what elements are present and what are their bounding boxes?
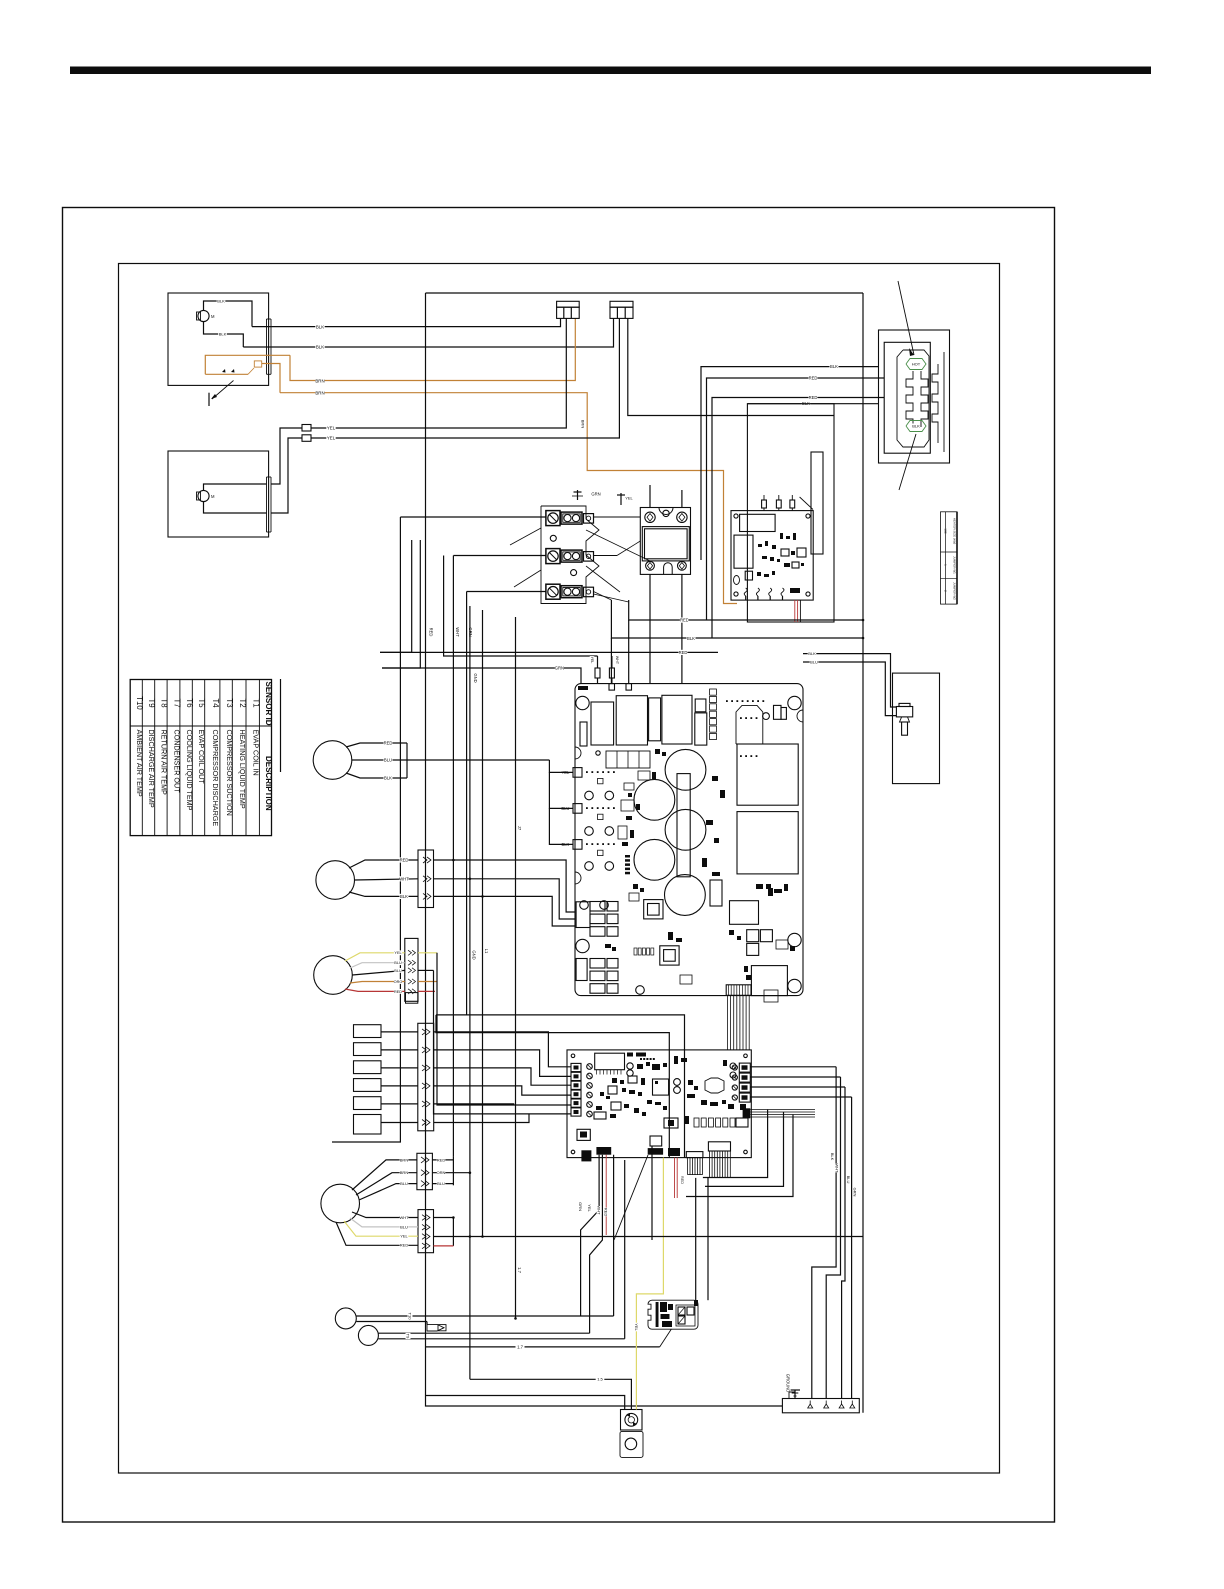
control board left terminal strip bbox=[571, 1063, 581, 1116]
label BLK plug wire 4 bbox=[801, 401, 810, 406]
display board component block A bbox=[740, 514, 776, 531]
wire M1 top loop bbox=[204, 301, 253, 327]
svg-text:T5: T5 bbox=[197, 698, 206, 708]
svg-text:WHT: WHT bbox=[597, 1205, 602, 1215]
label 1.7 V8 lower bbox=[517, 1265, 522, 1274]
label RED plug wire 2 bbox=[808, 375, 817, 380]
control board bottom wires bbox=[581, 1146, 652, 1339]
svg-text:WHT: WHT bbox=[399, 876, 409, 881]
power board mount holes bbox=[576, 696, 801, 992]
heater relay block bbox=[648, 1300, 698, 1329]
ground lug symbol 2 bbox=[617, 493, 634, 505]
svg-text:ORN: ORN bbox=[437, 1170, 446, 1175]
wire S3 GRY bbox=[350, 960, 405, 968]
jumper chart table bbox=[941, 512, 958, 604]
compressor plug socket bbox=[621, 1410, 643, 1431]
wire BLK to plug (line 1) bbox=[701, 367, 879, 560]
plate hole 2 bbox=[571, 570, 577, 576]
control board red pair down bbox=[606, 1155, 684, 1235]
power board lower-left fuse bank A bbox=[576, 902, 618, 937]
control board bottom comb A bbox=[688, 1158, 703, 1175]
fan motor M1 bbox=[197, 310, 216, 321]
TB jumpers to SSR bbox=[510, 517, 650, 602]
svg-text:BLK: BLK bbox=[316, 345, 324, 350]
label BRN wire 2 bbox=[315, 390, 324, 395]
svg-text:RED: RED bbox=[680, 618, 689, 623]
wire TB3 feed bbox=[467, 591, 546, 593]
svg-text:GRN: GRN bbox=[578, 1202, 583, 1211]
power board filter capacitors bbox=[634, 749, 706, 915]
plate hole 1 bbox=[550, 535, 556, 541]
wire RED bus bbox=[629, 600, 863, 620]
svg-text:BLK: BLK bbox=[219, 331, 227, 336]
wire BLK fan1 to connector 1 bbox=[252, 319, 561, 327]
svg-text:BRN: BRN bbox=[400, 1157, 409, 1162]
svg-text:RED: RED bbox=[428, 628, 433, 637]
power plug blade comb left bbox=[906, 371, 913, 427]
label WHT V4 bbox=[455, 627, 460, 636]
junction dots bbox=[452, 619, 864, 1320]
harness wire V7 bbox=[482, 610, 484, 1237]
wire S1 BLU bbox=[352, 757, 550, 762]
label YEL wire 2 bbox=[326, 435, 335, 440]
wire SSR input left bbox=[649, 485, 651, 508]
power board mid small parts bbox=[618, 776, 773, 901]
svg-text:T6: T6 bbox=[185, 698, 194, 707]
svg-text:BLK: BLK bbox=[316, 325, 324, 330]
connector strip CN1 bbox=[418, 850, 434, 908]
svg-text:JUMPER W1: JUMPER W1 bbox=[953, 556, 957, 574]
wire M1 bottom loop bbox=[204, 322, 244, 347]
thermostat bulb T10 bbox=[335, 1308, 356, 1329]
wire RED to plug (line 3) bbox=[712, 398, 884, 639]
svg-text:BLU: BLU bbox=[394, 961, 402, 965]
label BLK on C2 pin wire bbox=[581, 420, 586, 429]
svg-text:DESCRIPTION: DESCRIPTION bbox=[264, 756, 273, 811]
svg-text:J7: J7 bbox=[517, 826, 522, 831]
wires CN5 to harness bbox=[434, 1218, 864, 1246]
fan box 2 (condenser fan) bbox=[168, 451, 269, 537]
wire BLK power board to solenoid bbox=[803, 654, 896, 707]
svg-text:BLK: BLK bbox=[830, 1153, 835, 1161]
wire S1 BLK bbox=[346, 773, 407, 781]
wire SSR output left down to power board bbox=[649, 574, 651, 683]
svg-text:T4: T4 bbox=[211, 698, 220, 708]
bundle wire GRN right side bbox=[852, 1097, 858, 1399]
nested corner wire C bbox=[686, 1115, 793, 1197]
svg-text:RED: RED bbox=[394, 990, 402, 994]
svg-text:BLK: BLK bbox=[384, 776, 392, 781]
svg-text:T10: T10 bbox=[135, 696, 144, 710]
wire fuse 2 to fan 2 bbox=[271, 438, 302, 513]
svg-text:RED: RED bbox=[679, 650, 688, 655]
terminal block TB3 bbox=[546, 584, 594, 599]
ground symbol bbox=[785, 1374, 800, 1399]
wire RED to plug (line 2) bbox=[707, 378, 885, 620]
bundle wire BLK right side bbox=[812, 1067, 836, 1399]
svg-text:BLU: BLU bbox=[437, 1181, 445, 1186]
SSR center hole bbox=[659, 508, 673, 517]
wire S3 BLU bbox=[352, 968, 433, 975]
nested corner wire A bbox=[703, 1110, 768, 1178]
wire SSR input right bbox=[681, 490, 683, 508]
ground terminal strip bbox=[782, 1399, 859, 1413]
svg-text:GRN: GRN bbox=[853, 1188, 858, 1197]
svg-text:10E: 10E bbox=[943, 528, 947, 533]
label L1 V7 bbox=[484, 948, 489, 954]
inner diagram border bbox=[119, 264, 1000, 1474]
sensor table row T1 bbox=[251, 698, 260, 775]
svg-text:BRN: BRN bbox=[400, 1170, 409, 1175]
label BRN wire 1 bbox=[315, 378, 324, 383]
svg-text:T1: T1 bbox=[251, 698, 260, 707]
wire BLU power board to solenoid bbox=[803, 662, 896, 716]
svg-text:BLK: BLK bbox=[217, 298, 225, 303]
display board pin hooks bbox=[744, 588, 784, 600]
svg-text:COOLING LIQUID TEMP: COOLING LIQUID TEMP bbox=[185, 730, 194, 811]
label RED bus bbox=[680, 618, 689, 623]
display board small parts bbox=[734, 533, 807, 593]
wires T10 bbox=[356, 1312, 613, 1331]
wire S2 WHT bbox=[355, 876, 576, 919]
label RED lower bus bbox=[678, 650, 687, 655]
fuse to power board 1 bbox=[590, 656, 600, 684]
wire YEL to compressor bbox=[634, 1158, 664, 1410]
power board pin dot rows bbox=[726, 700, 764, 757]
thermostat bulb T9 bbox=[358, 1325, 378, 1345]
sensor table row T10 bbox=[135, 696, 144, 797]
svg-text:BLU: BLU bbox=[384, 758, 392, 763]
svg-text:L1: L1 bbox=[484, 949, 489, 954]
nested corner wire B bbox=[705, 1112, 784, 1186]
wire BRN 1 (orange) to connector 1 bbox=[290, 319, 575, 381]
connector strip CN3 bbox=[418, 1023, 434, 1131]
page header rule bbox=[70, 67, 1151, 75]
sensor table row T4 bbox=[211, 698, 220, 826]
solid state relay U1 body bbox=[640, 508, 690, 575]
power board board-to-board comb bbox=[726, 985, 751, 996]
bundle wire WHT right side bbox=[826, 1077, 840, 1399]
SSR screw terminal top-left bbox=[645, 512, 655, 522]
label BLK plug wire 1 bbox=[829, 364, 838, 369]
sensor bulb S1 bbox=[313, 741, 352, 780]
solenoid valve symbol bbox=[896, 703, 912, 735]
label BLK M1 top bbox=[217, 299, 226, 304]
wire S1 RED bbox=[346, 740, 407, 747]
svg-text:BLK: BLK bbox=[400, 894, 408, 899]
main unit boundary right edge wire bbox=[862, 293, 864, 1413]
svg-text:T2: T2 bbox=[238, 698, 247, 707]
svg-text:1.7: 1.7 bbox=[517, 1267, 522, 1273]
display board enclosure box bbox=[747, 404, 834, 622]
svg-text:CONDENSER OUT: CONDENSER OUT bbox=[172, 730, 181, 794]
svg-text:WHT: WHT bbox=[615, 656, 619, 665]
power plug outer box bbox=[879, 330, 950, 463]
power board edge notches bbox=[575, 710, 803, 884]
power board ladder component bbox=[710, 689, 717, 740]
svg-text:T3: T3 bbox=[225, 698, 234, 707]
main unit boundary left edge wire bbox=[426, 293, 783, 1406]
fuse to power board 2 bbox=[609, 656, 619, 684]
svg-text:COMPRESSOR DISCHARGE: COMPRESSOR DISCHARGE bbox=[211, 730, 220, 827]
harness wire V4 (WHT) bbox=[452, 556, 454, 1157]
ground lug symbol GRN bbox=[572, 490, 601, 500]
svg-text:DISCHARGE AIR TEMP: DISCHARGE AIR TEMP bbox=[147, 730, 156, 808]
svg-text:T7: T7 bbox=[172, 698, 181, 707]
svg-text:BLU: BLU bbox=[846, 1176, 851, 1184]
label J7 V8 bbox=[517, 825, 522, 831]
control board terminal screws bbox=[587, 1064, 593, 1117]
fan motor M2 bbox=[197, 490, 216, 501]
wire S2 RED bbox=[349, 857, 575, 912]
svg-text:T9: T9 bbox=[406, 1334, 411, 1339]
sensor table row T2 bbox=[238, 698, 247, 808]
plug pointer arrow top bbox=[898, 281, 914, 356]
svg-text:YEL: YEL bbox=[394, 951, 401, 955]
svg-text:BLK: BLK bbox=[687, 636, 695, 641]
control board lower connectors bbox=[577, 1108, 750, 1161]
SSR screw terminal top-right bbox=[677, 512, 687, 522]
svg-text:RED: RED bbox=[809, 395, 818, 400]
sensor bulb S2 bbox=[316, 861, 355, 900]
control board mount holes bbox=[571, 1054, 747, 1154]
board-to-board ribbon wires bbox=[728, 995, 750, 1050]
harness wire V8 (J7) bbox=[515, 617, 517, 1318]
control board bottom comb B bbox=[710, 1151, 731, 1178]
harness wire V5 (GRN) bbox=[466, 592, 468, 1015]
svg-text:YEL: YEL bbox=[634, 1323, 639, 1331]
sensor table row T6 bbox=[185, 698, 194, 810]
svg-text:EVAP COIL OUT: EVAP COIL OUT bbox=[197, 730, 206, 785]
label YEL wire 1 bbox=[326, 425, 335, 430]
fan 2 connector bar bbox=[267, 477, 272, 532]
svg-text:WHT: WHT bbox=[455, 627, 460, 637]
label BLK wire 1 bbox=[315, 324, 324, 329]
svg-text:BLK: BLK bbox=[808, 651, 816, 656]
svg-text:BLK: BLK bbox=[830, 364, 838, 369]
harness wire V2 bbox=[380, 540, 412, 652]
svg-text:RED: RED bbox=[384, 741, 393, 746]
harness wire V3b to fuse bbox=[444, 556, 598, 657]
svg-text:YEL: YEL bbox=[590, 657, 594, 664]
sensor bulb S3 bbox=[314, 956, 353, 995]
svg-text:WHT: WHT bbox=[399, 1215, 409, 1220]
main unit boundary top edge bbox=[426, 292, 864, 294]
svg-text:HOT: HOT bbox=[912, 361, 921, 366]
label BLK bus bbox=[686, 636, 695, 641]
wires relay bank to CN3 bbox=[381, 1032, 418, 1123]
control board component cluster bbox=[594, 1053, 669, 1120]
wire S3 RED bbox=[345, 989, 435, 994]
display board PCB outline bbox=[731, 511, 813, 600]
wire into power board tabs bbox=[549, 760, 573, 844]
label BLK wire 2 bbox=[315, 344, 324, 349]
wire L7 run bbox=[426, 1329, 672, 1350]
wire M2 to bar (bottom) bbox=[204, 502, 267, 513]
wire BLK bus bbox=[611, 600, 863, 638]
wire M2 to bar (top) bbox=[204, 484, 267, 490]
wire RED lower bus bbox=[380, 651, 718, 653]
svg-text:BLK: BLK bbox=[912, 423, 920, 428]
solenoid valve box bbox=[893, 673, 940, 784]
inline connector under CN2 bbox=[406, 993, 418, 1004]
svg-text:AMBIENT AIR TEMP: AMBIENT AIR TEMP bbox=[135, 730, 144, 797]
svg-text:WHT: WHT bbox=[835, 1163, 840, 1173]
svg-text:T8: T8 bbox=[160, 698, 169, 707]
connector strip CN5 bbox=[418, 1210, 434, 1253]
sensor table row T9 bbox=[147, 698, 156, 807]
wire YEL vertical to board terminal bbox=[434, 953, 572, 1114]
power board left edge tabs bbox=[561, 768, 615, 850]
plug pointer arrow bottom bbox=[899, 434, 916, 490]
svg-text:1.5: 1.5 bbox=[597, 1377, 603, 1382]
svg-text:BLU: BLU bbox=[400, 1224, 408, 1229]
wire bridge over control board bbox=[436, 1015, 685, 1158]
power board outline bbox=[575, 684, 803, 996]
wire TB2 feed bbox=[453, 555, 546, 557]
svg-text:EVAP COIL IN: EVAP COIL IN bbox=[251, 730, 260, 776]
svg-text:YEL: YEL bbox=[327, 426, 336, 431]
svg-text:RED: RED bbox=[604, 1208, 609, 1217]
wire YEL 2 to connector 2 middle pin bbox=[311, 319, 619, 439]
power plug blade comb right bbox=[932, 364, 938, 443]
S1 connector bracket bbox=[406, 743, 408, 778]
svg-text:T10: T10 bbox=[408, 1313, 413, 1321]
ribbon wires control board to right bbox=[750, 1110, 815, 1118]
fuse F1 (yellow circuit) bbox=[302, 425, 311, 432]
wire to heater relay B bbox=[707, 1178, 709, 1300]
power plug blade comb middle bbox=[921, 371, 928, 427]
svg-text:RED: RED bbox=[809, 376, 818, 381]
label BLK solenoid wire bbox=[808, 651, 817, 656]
svg-text:T9: T9 bbox=[147, 698, 156, 707]
fuse F2 (yellow circuit) bbox=[302, 435, 311, 442]
svg-text:RETURN AIR TEMP: RETURN AIR TEMP bbox=[160, 730, 169, 796]
outer diagram border bbox=[63, 208, 1055, 1523]
label GRN wire bbox=[555, 665, 564, 670]
svg-text:GRN: GRN bbox=[591, 492, 600, 497]
power board heatsink block bbox=[736, 705, 786, 744]
label GND V6 lower bbox=[471, 950, 476, 959]
control board right cluster bbox=[627, 1056, 748, 1128]
svg-text:GND: GND bbox=[472, 950, 477, 959]
wires CN3 to control board staircase bbox=[434, 1032, 571, 1123]
power board top edge tabs bbox=[609, 620, 632, 690]
power plug inner box bbox=[884, 342, 930, 453]
wire TB1 feed bbox=[400, 516, 546, 518]
wire C2 right pin down to display board box bbox=[628, 319, 834, 416]
power board top components bbox=[578, 686, 707, 745]
terminal block TB2 bbox=[546, 549, 594, 564]
label BLU solenoid wire bbox=[810, 660, 819, 665]
svg-text:RED: RED bbox=[400, 1243, 409, 1248]
svg-text:RED: RED bbox=[680, 1176, 684, 1184]
tall bracket rectangle bbox=[811, 452, 823, 554]
svg-text:RED: RED bbox=[437, 1157, 446, 1162]
wire BRN 2 (orange) long run to display board bbox=[280, 393, 737, 604]
bracket pointer diagonal bbox=[800, 497, 813, 510]
wire SSR output right down to power board bbox=[681, 574, 683, 683]
power plug body octagon bbox=[897, 350, 929, 447]
connector strip CN2 bbox=[405, 938, 418, 1001]
sensor table row T5 bbox=[197, 698, 206, 784]
SSR screw terminal bottom-left bbox=[646, 561, 655, 570]
svg-text:BLU: BLU bbox=[394, 969, 402, 973]
harness labels bottom bbox=[578, 1202, 609, 1216]
run capacitor connector C1 bbox=[557, 301, 580, 318]
svg-text:GND: GND bbox=[473, 673, 478, 682]
power board relay block 1 bbox=[737, 744, 798, 805]
svg-text:1.7: 1.7 bbox=[517, 1344, 523, 1349]
connector strip CN4 bbox=[417, 1153, 433, 1189]
display board ribbon (red pair) bbox=[795, 600, 801, 622]
power board top capacitor strip bbox=[580, 722, 666, 780]
sensor table row T8 bbox=[160, 698, 169, 795]
wire GRN to power board bbox=[382, 668, 581, 684]
bundle wire BLU right side bbox=[842, 1087, 851, 1399]
wire S3 YEL bbox=[345, 950, 437, 961]
overload switch (orange loop) bbox=[205, 355, 290, 392]
label RED V2 bbox=[428, 627, 433, 636]
power board screw circle pairs bbox=[580, 778, 614, 909]
label BLK M1 bottom bbox=[218, 332, 227, 337]
wires CN4 to harness bbox=[432, 1157, 470, 1187]
power board right small parts bbox=[746, 884, 795, 980]
power plug right bar bbox=[943, 352, 945, 452]
svg-text:YEL: YEL bbox=[587, 1204, 592, 1212]
table leader line bbox=[280, 679, 282, 772]
svg-text:YEL: YEL bbox=[400, 1234, 408, 1239]
wire to heater relay A bbox=[695, 1178, 697, 1300]
svg-text:BLU: BLU bbox=[400, 1181, 408, 1186]
label RED plug wire 3 bbox=[808, 395, 817, 400]
label GRN V5 bbox=[468, 627, 473, 636]
wires control board right terminals to bundle bbox=[750, 1067, 851, 1097]
svg-text:JUMPER W2: JUMPER W2 bbox=[953, 582, 957, 600]
svg-text:M: M bbox=[211, 314, 215, 319]
compressor body bbox=[620, 1431, 643, 1457]
svg-text:COMPRESSOR SUCTION: COMPRESSOR SUCTION bbox=[225, 730, 234, 816]
svg-text:HEATER SIZE (kW): HEATER SIZE (kW) bbox=[953, 518, 957, 545]
wire S2 BLK bbox=[349, 892, 575, 926]
wires M3 to CN5 bbox=[336, 1212, 418, 1248]
svg-text:YEL: YEL bbox=[327, 436, 336, 441]
HOT pin hexagon bbox=[906, 359, 926, 370]
fan box 1 (condenser fan) bbox=[168, 293, 269, 385]
wire bottom run to compressor bbox=[426, 1396, 625, 1410]
svg-text:BRN: BRN bbox=[315, 391, 324, 396]
svg-text:BRN: BRN bbox=[581, 420, 586, 429]
SSR screw terminal bottom-right bbox=[678, 561, 687, 570]
svg-text:SENSOR ID: SENSOR ID bbox=[264, 682, 273, 726]
power board relay block 2 bbox=[737, 812, 798, 874]
wires M3 to CN4 bbox=[352, 1157, 417, 1200]
svg-text:RED: RED bbox=[400, 858, 409, 863]
terminal block TB1 bbox=[546, 511, 594, 526]
svg-text:BLU: BLU bbox=[810, 659, 818, 664]
harness wire V1 bbox=[332, 517, 400, 1142]
svg-text:BRN: BRN bbox=[315, 379, 324, 384]
wires T9 bbox=[378, 1333, 624, 1339]
fan 1 connector bar bbox=[267, 319, 272, 374]
label GND V6 bbox=[473, 673, 478, 682]
sensor table row T3 bbox=[225, 698, 234, 815]
sensor table row T7 bbox=[172, 698, 181, 793]
svg-text:ORG: ORG bbox=[394, 980, 403, 984]
wire L5 to compressor bbox=[470, 1377, 632, 1410]
control board outline bbox=[567, 1050, 751, 1158]
svg-text:GRN: GRN bbox=[555, 666, 564, 671]
